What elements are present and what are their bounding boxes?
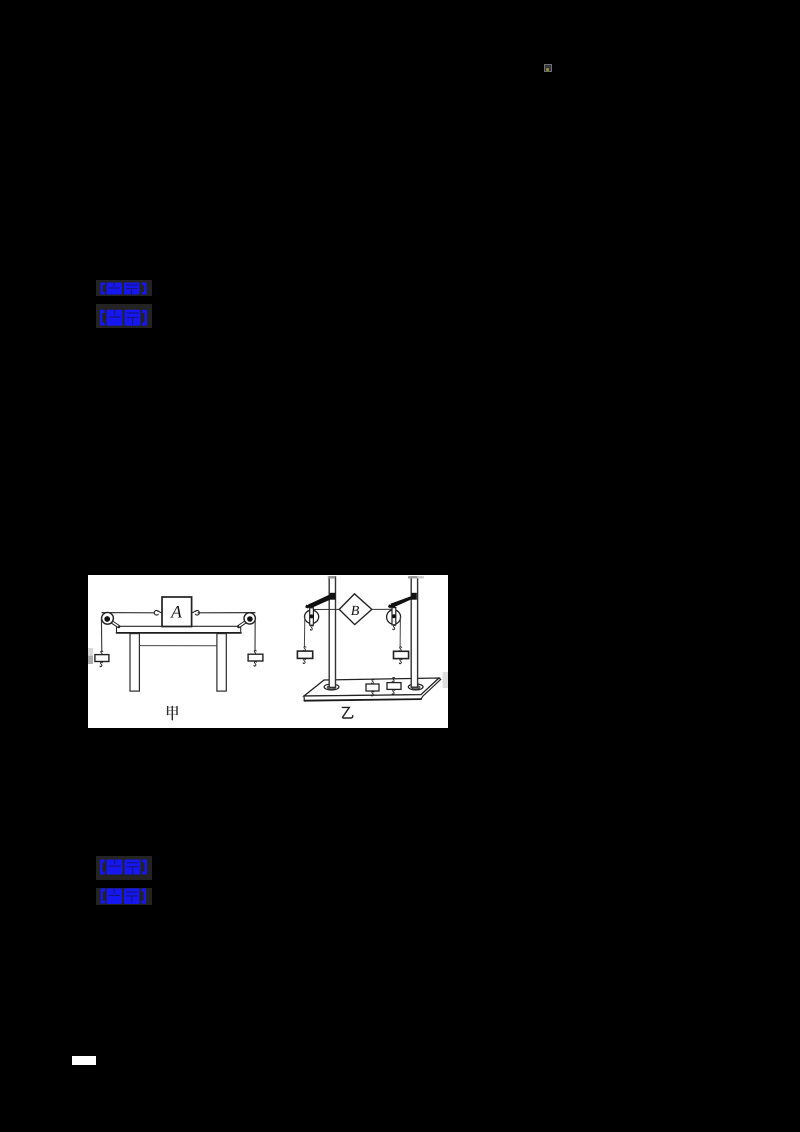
wire: left string down <box>100 617 102 652</box>
wire: right string down <box>399 617 401 647</box>
left table leg <box>130 634 139 692</box>
base plate bottom front edge <box>304 699 421 701</box>
hook left of A <box>154 610 158 615</box>
right pulley <box>244 613 255 624</box>
small white rectangle bottom left <box>72 1056 96 1065</box>
left pulley bracket <box>107 619 118 627</box>
wire: string diamond to right pulley <box>372 608 392 610</box>
block A <box>162 597 192 627</box>
caption yi <box>342 707 352 718</box>
left hanging weight <box>100 651 103 655</box>
wire: left string pulley to block A <box>102 612 154 614</box>
wire: string diamond to left pulley <box>312 608 339 610</box>
blue tag block 3 (【答案】) <box>96 856 152 880</box>
figure image area <box>88 575 448 728</box>
tabletop slab <box>117 625 242 633</box>
wire: right string down <box>254 617 256 651</box>
svg-text:A: A <box>170 602 182 622</box>
diamond B <box>339 594 372 625</box>
left pulley <box>102 612 114 624</box>
left pulley <box>305 610 319 623</box>
gray artifact left edge <box>88 648 93 656</box>
hole right <box>408 684 423 690</box>
broken-image placeholder icon top right <box>544 64 552 72</box>
right pulley <box>387 610 401 624</box>
right clamp <box>411 593 416 600</box>
left rod <box>329 577 335 687</box>
right rod <box>411 577 417 687</box>
caption jia <box>168 707 177 714</box>
weight on plate 2 <box>392 677 395 681</box>
left clamp <box>330 593 336 600</box>
blue tag block 1 (【答案】) <box>96 280 152 296</box>
right rod gray cap <box>408 576 417 578</box>
weight on plate 1 <box>371 679 374 683</box>
hole left <box>324 684 339 690</box>
gray artifact right edge <box>443 672 448 688</box>
base plate top face <box>304 678 439 696</box>
blue tag block 4 (【解析】) <box>96 888 152 905</box>
right hanging weight <box>399 647 402 651</box>
blue tag block 2 (【解析】) <box>96 304 152 328</box>
crossbar between legs <box>139 645 217 647</box>
wire: left string down <box>303 617 305 647</box>
wire: right string block A to pulley <box>198 612 255 614</box>
left hanging weight <box>303 647 306 651</box>
right hanging weight <box>254 650 257 654</box>
base plate side band <box>304 678 441 701</box>
hook right of A <box>195 610 199 615</box>
svg-text:B: B <box>351 604 360 619</box>
right pulley bracket <box>239 619 250 627</box>
left rod gray cap <box>328 576 335 578</box>
right table leg <box>217 634 226 692</box>
